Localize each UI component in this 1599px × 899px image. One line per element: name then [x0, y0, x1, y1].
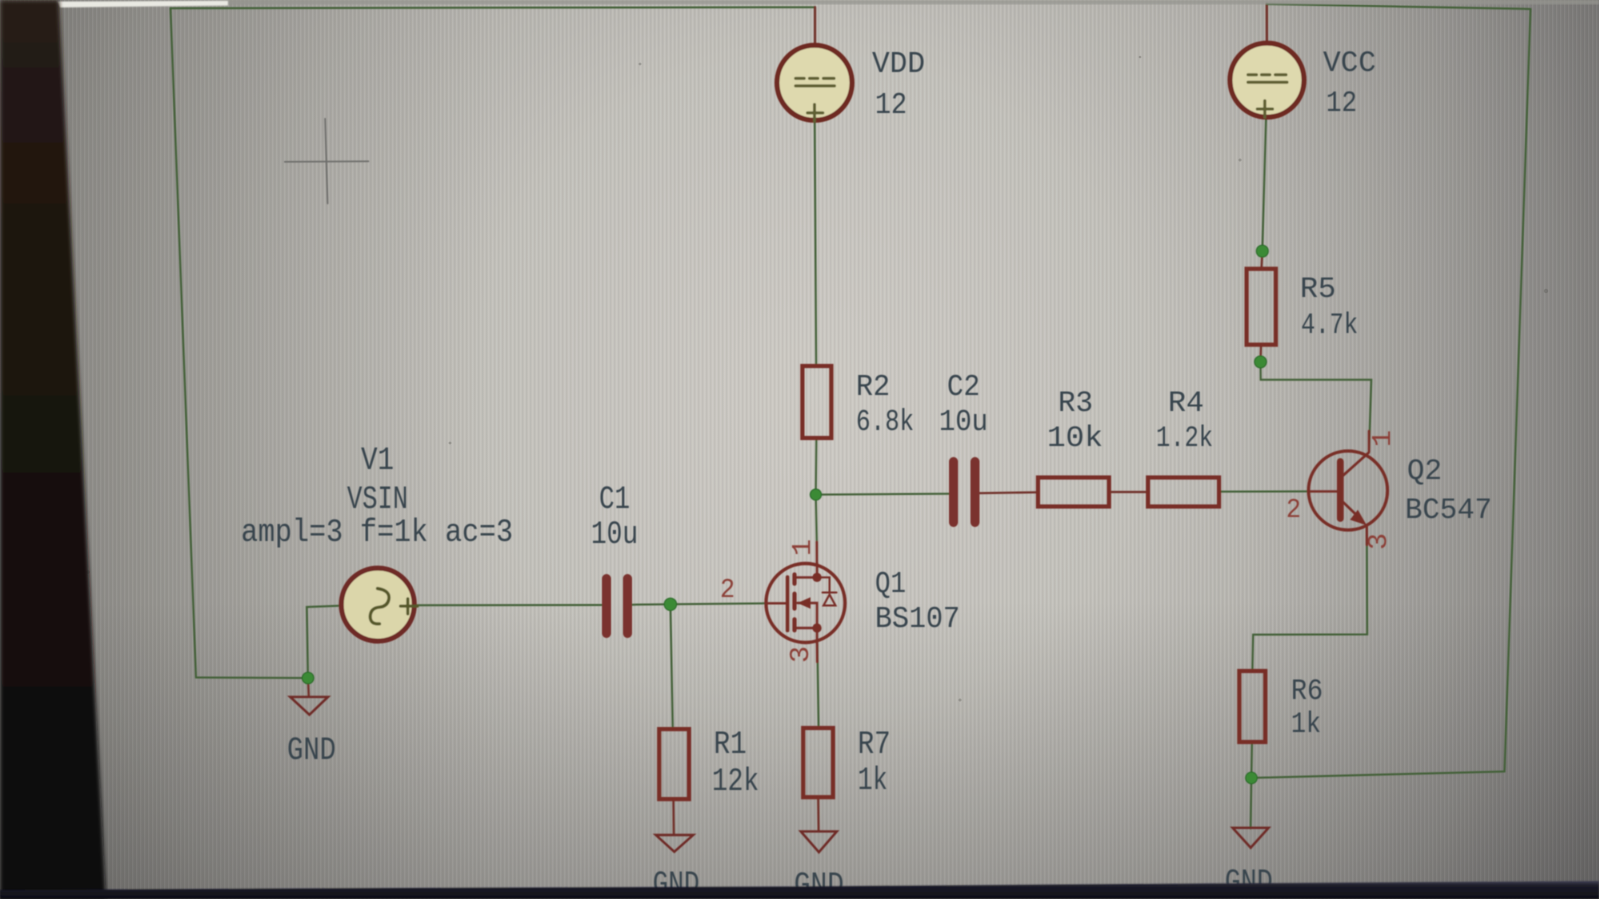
- svg-text:R3: R3: [1058, 387, 1093, 421]
- gate lead: [766, 602, 786, 604]
- wire V1 minus lead: [307, 606, 340, 678]
- body diode rail: [822, 577, 830, 592]
- svg-text:1k: 1k: [858, 762, 888, 799]
- svg-text:12k: 12k: [712, 763, 759, 800]
- wire R3 to R4: [1110, 491, 1147, 493]
- svg-text:R1: R1: [714, 726, 747, 763]
- ground GND1: [290, 697, 328, 715]
- wire R5 top stub: [1260, 251, 1263, 268]
- svg-text:V1: V1: [361, 442, 394, 479]
- svg-text:4.7k: 4.7k: [1301, 309, 1358, 343]
- ground GND2: [656, 835, 693, 852]
- ground GND4: [1233, 828, 1269, 848]
- svg-text:BC547: BC547: [1405, 494, 1492, 528]
- wire R6 bottom to node C: [1250, 744, 1253, 778]
- resistor R5: [1247, 269, 1276, 345]
- wire VDD top rail (top-left frame run): [171, 7, 816, 8]
- svg-text:2: 2: [720, 576, 735, 606]
- base lead: [1308, 490, 1338, 492]
- gate bar: [786, 577, 790, 631]
- svg-text:10u: 10u: [591, 516, 638, 553]
- wire GND1 stub: [307, 678, 310, 697]
- wire node C to GND: [1250, 778, 1253, 829]
- source pin dot: [812, 623, 821, 632]
- resistor R1: [659, 729, 689, 799]
- wire Q1 source to R7: [817, 644, 818, 728]
- dark bezel wedge left: [0, 0, 106, 899]
- grid origin cross: [285, 119, 369, 204]
- wire R5 bottom stub: [1259, 346, 1262, 362]
- transistor Q2 BC547: [1308, 431, 1388, 545]
- sine squiggle: [370, 589, 389, 624]
- wire node B to C2: [816, 493, 949, 496]
- junction above R5: [1256, 245, 1268, 257]
- wire node B down to Q1 drain: [816, 495, 817, 542]
- mosfet Q1 BS107: [766, 542, 845, 662]
- ground GND3: [801, 831, 837, 852]
- plus mark: [401, 605, 418, 608]
- collector stub: [1368, 431, 1370, 452]
- svg-text:VCC: VCC: [1323, 47, 1376, 81]
- svg-text:R7: R7: [858, 726, 891, 763]
- emitter arrow: [1350, 510, 1367, 526]
- svg-text:12: 12: [1326, 87, 1357, 121]
- dark band bottom: [0, 881, 1599, 899]
- svg-text:1k: 1k: [1291, 708, 1321, 742]
- svg-text:1: 1: [1369, 430, 1399, 447]
- wire VCC to R5: [1262, 119, 1266, 252]
- wire node A down to R1: [670, 604, 672, 730]
- svg-text:R2: R2: [856, 370, 890, 405]
- wire R5 node to Q2 collector: [1261, 362, 1372, 452]
- wire R7 bottom to GND: [817, 798, 820, 831]
- svg-text:10k: 10k: [1047, 422, 1103, 456]
- svg-text:3: 3: [787, 646, 817, 663]
- collector line: [1343, 453, 1369, 476]
- wire Q2 emitter down: [1252, 527, 1367, 671]
- drain pin dot: [812, 573, 821, 582]
- junction node B: [810, 489, 821, 500]
- svg-text:10u: 10u: [939, 405, 988, 440]
- source stub: [816, 643, 819, 663]
- power symbol VDD: [777, 45, 852, 121]
- svg-text:12: 12: [875, 88, 907, 123]
- wire VCC top rail right: [1267, 4, 1531, 9]
- source V1 VSIN: [341, 568, 417, 641]
- wire R1 bottom to GND: [672, 800, 675, 835]
- svg-text:1.2k: 1.2k: [1156, 422, 1213, 456]
- junction below R5: [1255, 356, 1267, 368]
- svg-text:6.8k: 6.8k: [856, 405, 914, 440]
- junction GND1 node: [302, 672, 314, 684]
- capacitor C1: [607, 579, 628, 634]
- wire R2 to node B: [815, 438, 818, 495]
- svg-text:2: 2: [1286, 496, 1301, 526]
- wire node A to Q1 gate: [670, 603, 766, 604]
- svg-text:1: 1: [789, 539, 819, 556]
- wire left rail to GND junction: [196, 677, 308, 680]
- junction node A: [664, 598, 676, 610]
- resistor R3: [1038, 478, 1109, 507]
- svg-text:R4: R4: [1168, 387, 1204, 421]
- wire right rail down: [1505, 9, 1531, 772]
- wire VDD stem top: [814, 7, 816, 44]
- svg-text:C2: C2: [947, 370, 980, 405]
- channel dashes: [792, 575, 796, 631]
- base bar: [1337, 462, 1344, 519]
- emitter line: [1342, 501, 1359, 518]
- svg-text:Q2: Q2: [1407, 455, 1442, 489]
- svg-text:Q1: Q1: [875, 567, 906, 602]
- wire right rail to R6 node: [1251, 772, 1504, 778]
- resistor R2: [802, 366, 831, 438]
- drain link: [797, 563, 818, 577]
- body diode: [824, 595, 836, 606]
- wire left rail down: [171, 8, 197, 677]
- emitter stub: [1366, 527, 1368, 545]
- svg-text:GND: GND: [287, 732, 336, 769]
- wire VDD to R2: [815, 122, 817, 367]
- svg-text:C1: C1: [599, 481, 630, 518]
- svg-text:BS107: BS107: [875, 602, 960, 637]
- source link: [797, 628, 818, 643]
- wire C2 to R3: [978, 491, 1037, 494]
- wire V1 plus to C1: [415, 604, 603, 606]
- arrow head: [798, 597, 811, 609]
- capacitor C2: [954, 462, 976, 523]
- wire C1 to node A: [632, 603, 670, 605]
- white sliver top-left: [57, 1, 228, 8]
- power symbol VCC: [1230, 43, 1304, 117]
- wire R4 to Q2 base: [1220, 490, 1308, 492]
- resistor R6: [1239, 671, 1265, 742]
- svg-text:3: 3: [1365, 533, 1395, 550]
- svg-text:R6: R6: [1291, 675, 1323, 709]
- svg-text:VSIN: VSIN: [347, 481, 408, 518]
- source arrow link: [798, 603, 818, 628]
- top gray strip of photo: [220, 0, 1599, 4]
- resistor R7: [803, 728, 833, 797]
- drain stub: [816, 542, 819, 564]
- wire VCC stem top: [1266, 4, 1268, 42]
- svg-text:ampl=3 f=1k ac=3: ampl=3 f=1k ac=3: [241, 514, 513, 551]
- dust specks on photo: [86, 56, 1548, 702]
- resistor R4: [1148, 478, 1219, 507]
- svg-text:VDD: VDD: [872, 47, 925, 82]
- svg-text:R5: R5: [1300, 273, 1336, 307]
- junction node C: [1246, 772, 1258, 784]
